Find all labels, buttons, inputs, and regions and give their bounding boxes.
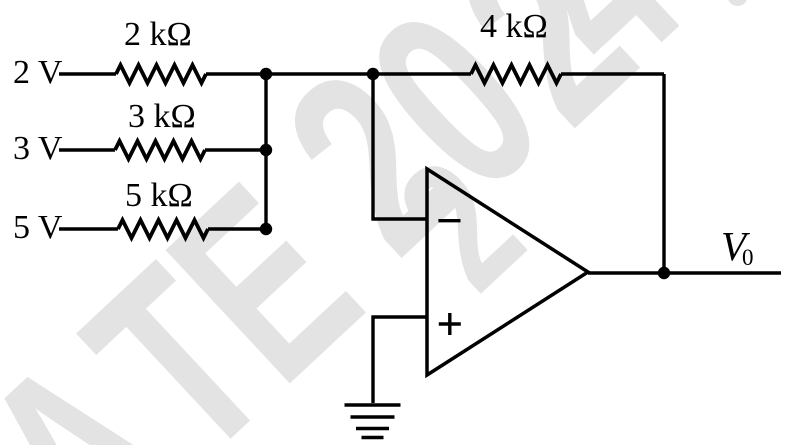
wire R3 to bus: [208, 227, 266, 230]
ground bar1: [345, 403, 401, 407]
op-amp plus pin mark: [439, 313, 461, 335]
wire 3V input: [59, 148, 115, 151]
wire 5V input: [59, 227, 118, 230]
svg-text:0: 0: [742, 245, 754, 270]
resistor R3 5k zigzag: [118, 220, 208, 238]
node: bus junction dot row3: [260, 223, 272, 235]
resistor R1 2k zigzag: [116, 65, 206, 83]
svg-text:4 kΩ: 4 kΩ: [480, 8, 548, 45]
resistor R2 3k zigzag: [115, 141, 205, 159]
ground bar3: [356, 427, 389, 431]
watermark stray glyph tip top edge: [728, 0, 748, 6]
output node junction dot: [658, 267, 670, 279]
wire node A to R4: [373, 72, 471, 75]
ground bar2: [351, 415, 395, 419]
node: bus junction dot row1: [260, 68, 272, 80]
svg-text:3 V: 3 V: [13, 130, 63, 167]
node A junction dot: [367, 68, 379, 80]
wire 2V input: [59, 72, 116, 75]
node: bus junction dot row2: [260, 144, 272, 156]
wire output: [588, 271, 781, 274]
wire R4 to feedback corner: [561, 72, 664, 75]
op-amp minus pin mark: [438, 219, 460, 222]
svg-text:3 kΩ: 3 kΩ: [128, 98, 196, 135]
svg-text:2 kΩ: 2 kΩ: [124, 16, 192, 53]
wire feedback vertical: [662, 74, 665, 273]
wire noninverting input: [373, 317, 427, 403]
ground bar4: [362, 436, 384, 440]
wire bus vertical: [264, 74, 267, 229]
svg-text:5 kΩ: 5 kΩ: [125, 177, 193, 214]
wire R2 to bus: [205, 148, 266, 151]
wire bus to node A: [266, 72, 373, 75]
wire inverting input drop: [373, 74, 427, 219]
resistor R4 4k zigzag: [471, 65, 561, 83]
wire R1 to bus: [206, 72, 266, 75]
svg-text:5 V: 5 V: [13, 209, 63, 246]
op-amp U1 triangle: [427, 169, 588, 375]
svg-text:2 V: 2 V: [13, 54, 63, 91]
